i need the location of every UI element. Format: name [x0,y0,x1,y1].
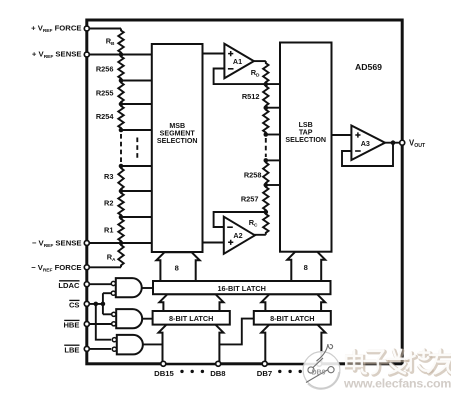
svg-text:8: 8 [304,263,308,272]
svg-text:− VREF SENSE: − VREF SENSE [32,239,82,250]
svg-text:DB15: DB15 [154,369,174,378]
svg-text:DB7: DB7 [257,369,272,378]
svg-text:DB0: DB0 [311,370,325,377]
svg-text:16-BIT LATCH: 16-BIT LATCH [217,284,266,293]
svg-text:− VREF FORCE: − VREF FORCE [31,263,81,274]
svg-text:+ VREF FORCE: + VREF FORCE [31,23,81,34]
svg-text:8-BIT LATCH: 8-BIT LATCH [169,314,213,323]
svg-text:R2: R2 [104,199,113,208]
svg-text:R256: R256 [96,65,114,74]
svg-text:HBE: HBE [63,321,79,330]
svg-text:8-BIT LATCH: 8-BIT LATCH [270,314,314,323]
svg-text:R254: R254 [96,112,115,121]
svg-text:R1: R1 [104,226,113,235]
svg-text:R512: R512 [242,92,260,101]
svg-text:DB8: DB8 [210,369,226,378]
svg-text:+ VREF SENSE: + VREF SENSE [32,49,82,60]
svg-text:8: 8 [175,264,179,273]
svg-text:LBE: LBE [64,345,79,354]
svg-text:SELECTION: SELECTION [157,137,198,145]
svg-text:LDAC: LDAC [58,281,80,290]
svg-text:www.elecfans.com: www.elecfans.com [343,377,451,391]
svg-text:A3: A3 [361,139,370,148]
svg-text:SELECTION: SELECTION [285,136,326,144]
svg-text:AD569: AD569 [355,62,382,72]
svg-text:CS: CS [69,301,80,310]
svg-text:R258: R258 [244,171,262,180]
svg-text:R257: R257 [241,195,259,204]
svg-text:R255: R255 [96,89,114,98]
svg-text:A1: A1 [233,57,242,66]
svg-text:A2: A2 [233,231,242,240]
svg-text:R3: R3 [104,172,113,181]
